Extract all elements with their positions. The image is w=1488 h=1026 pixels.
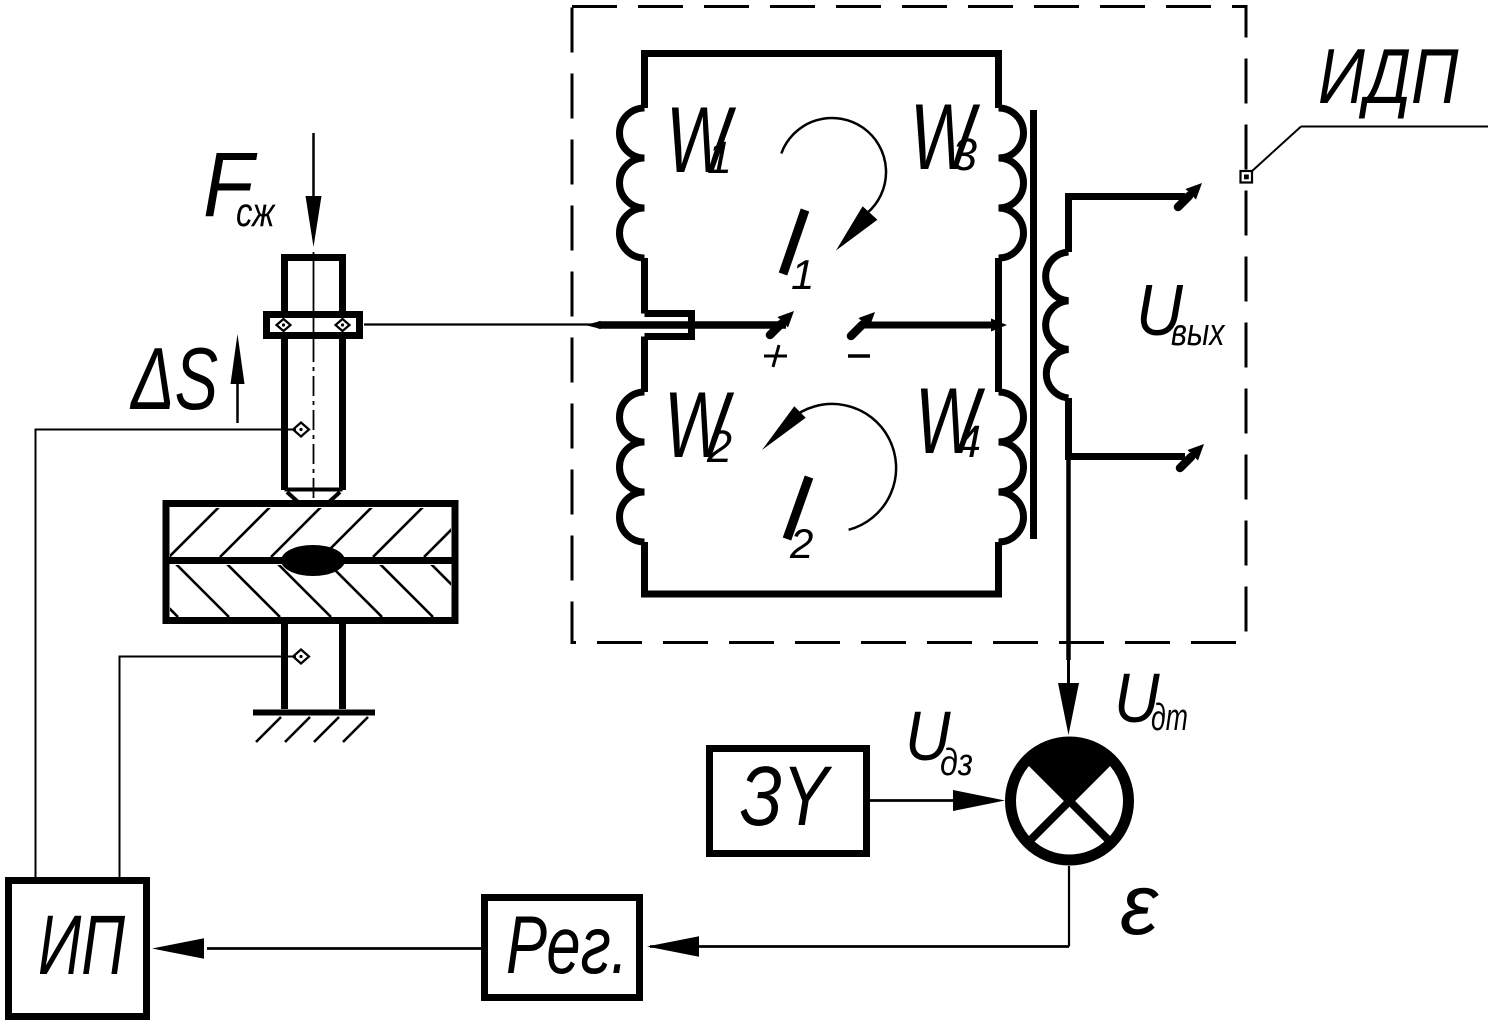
svg-text:ИП: ИП (38, 898, 126, 992)
svg-text:1: 1 (791, 251, 814, 298)
svg-text:ε: ε (1120, 857, 1159, 953)
svg-text:2: 2 (706, 421, 732, 472)
svg-text:1: 1 (707, 132, 732, 183)
svg-text:ЗY: ЗY (740, 750, 832, 844)
svg-text:4: 4 (956, 416, 981, 467)
svg-text:дз: дз (940, 742, 973, 784)
svg-text:вых: вых (1171, 312, 1226, 354)
svg-text:дт: дт (1151, 695, 1188, 738)
svg-text:Рег.: Рег. (506, 899, 628, 991)
svg-text:сж: сж (236, 188, 276, 234)
svg-text:ИДП: ИДП (1318, 34, 1459, 121)
svg-text:ΔS: ΔS (129, 331, 218, 429)
svg-text:3: 3 (952, 129, 977, 180)
svg-text:2: 2 (789, 520, 813, 567)
